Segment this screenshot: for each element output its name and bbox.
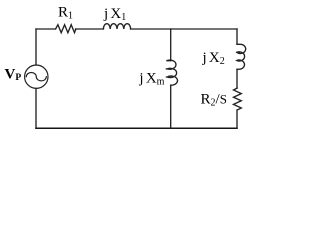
inductor L2 (j X2): [237, 44, 246, 69]
inductor L1 (j X1): [103, 24, 130, 29]
svg-text:j Xm: j Xm: [138, 71, 164, 88]
wire: right branch top segment: [236, 29, 238, 44]
AC source sine wave: [26, 73, 46, 81]
inductor Lm (j Xm): [166, 60, 177, 85]
wire: middle branch bottom segment: [170, 85, 172, 128]
resistor R1: [56, 25, 76, 33]
wire: R1 to L1: [76, 28, 104, 30]
svg-text:VP: VP: [5, 67, 22, 83]
wire: left vertical below source: [35, 88, 37, 128]
wire: right branch between L2 and R2/s: [236, 69, 238, 88]
svg-text:j X2: j X2: [202, 50, 225, 67]
svg-text:R1: R1: [58, 5, 73, 22]
svg-text:j X1: j X1: [103, 6, 126, 23]
AC source VP circle: [25, 65, 48, 88]
wire: top-left horizontal (left corner to R1): [36, 28, 56, 30]
wire: left vertical above source: [35, 29, 37, 65]
wire: middle branch top segment: [170, 29, 172, 61]
svg-text:R2/S: R2/S: [201, 91, 227, 108]
resistor R2/s: [234, 88, 242, 110]
wire: bottom horizontal: [36, 127, 237, 129]
wire: L1 to top-right corner: [131, 28, 237, 30]
wire: right branch bottom segment: [236, 110, 238, 128]
